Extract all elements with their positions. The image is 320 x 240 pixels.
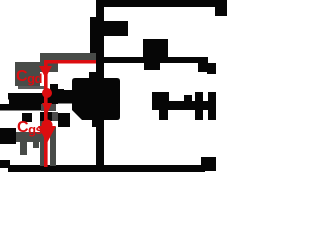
staircase column B: [56, 89, 64, 100]
bridge to junction blob: [50, 96, 72, 104]
red junction dot 2: [42, 120, 53, 131]
bottom-left corner block: [0, 160, 10, 168]
gray cell beside stub: [52, 112, 58, 121]
red current arrow 1: [39, 66, 52, 78]
red wire: vertical gate current path: [44, 60, 48, 167]
gray block below red branch: [40, 60, 58, 72]
wire: bottom bus: [8, 165, 205, 172]
junction blob top stub: [89, 72, 97, 80]
node: top-right pad: [215, 0, 227, 16]
red junction dot 1: [42, 88, 52, 98]
comb bar: [152, 101, 216, 110]
red wire: horizontal gate feed: [44, 60, 96, 64]
stub below plates B: [58, 113, 70, 127]
left edge block: [0, 128, 16, 144]
gray panel behind Cgd label: [15, 62, 40, 86]
capacitor lower plate: [0, 104, 41, 111]
staircase column C: [64, 90, 72, 100]
capacitor lower plate upper lip: [9, 100, 58, 105]
block above branch: [143, 39, 168, 63]
stub below plates C: [22, 113, 32, 122]
junction blob bottom stub: [92, 118, 98, 127]
wire: horizontal branch: [96, 57, 208, 63]
wire: top bus: [96, 0, 227, 7]
gray band around arrow: [41, 104, 56, 111]
comb left stub: [159, 107, 168, 120]
junction blob core: [72, 78, 120, 120]
capacitor upper plate: [8, 93, 58, 100]
stub below plates A: [40, 112, 52, 121]
block below branch: [144, 63, 160, 70]
gray column right of red line: [50, 127, 56, 166]
comb H right bar: [208, 92, 216, 120]
comb mid stub: [184, 95, 192, 102]
gray bar above red branch: [40, 53, 96, 60]
gray column below Cgs: [20, 142, 27, 155]
gray column left of red line: [40, 121, 44, 166]
gray block below Cgs: [16, 132, 40, 142]
comb H left bar: [195, 92, 203, 120]
gray column below Cgs 2: [33, 142, 39, 148]
red current arrow 2: [42, 103, 52, 114]
svg-text:Cgs: Cgs: [17, 119, 43, 137]
red current arrow 3: [38, 126, 56, 143]
right step block: [198, 63, 216, 72]
stub left of drain line: [90, 17, 96, 53]
staircase column A: [50, 84, 58, 100]
gray cell below stub A: [40, 121, 46, 127]
right step block lower lip: [207, 63, 216, 74]
bottom-right step block: [201, 157, 216, 171]
svg-text:Cgd: Cgd: [16, 68, 43, 86]
block right of drain line: [104, 21, 128, 36]
comb left block: [152, 92, 169, 107]
gray tick above plate: [18, 86, 46, 89]
wire: vertical drain line: [96, 0, 104, 172]
